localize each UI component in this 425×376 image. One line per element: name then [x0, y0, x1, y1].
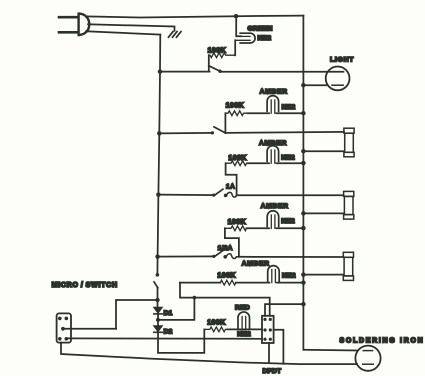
- node row1 tap on left bus: [158, 69, 163, 74]
- diode D2: [154, 326, 163, 333]
- wire left bus: [157, 35, 160, 275]
- node row4 tap on left bus: [155, 254, 160, 259]
- wire row1 from switch to light: [222, 71, 344, 73]
- node row4 indicator on right bus: [301, 226, 306, 231]
- lamp NE2 amber row4 envelope: [267, 211, 279, 227]
- switch S4 right contact blob: [223, 255, 227, 259]
- node receptacle J1 return on right bus: [301, 149, 306, 154]
- node DPDT col1 wire on right bus: [301, 302, 306, 307]
- wire row5 lamp to bus: [277, 282, 303, 284]
- node riser junction: [193, 296, 197, 300]
- svg-text:NE2: NE2: [281, 154, 295, 161]
- wire resistor R1 stub down: [208, 55, 210, 71]
- wire row5 indicator left leg: [180, 283, 270, 316]
- wire row3 fuse to receptacle J2: [237, 194, 344, 196]
- svg-text:100K: 100K: [217, 273, 236, 280]
- svg-text:DPDT: DPDT: [263, 368, 282, 375]
- wire row4 fuse to receptacle J3: [239, 256, 343, 258]
- svg-text:1A: 1A: [226, 183, 235, 190]
- svg-text:AMBER: AMBER: [261, 203, 289, 210]
- svg-text:AMBER: AMBER: [259, 140, 287, 147]
- wire receptacle J1 return: [303, 150, 344, 152]
- wire row4 indicator lamp to bus: [277, 227, 304, 229]
- svg-text:NE2: NE2: [281, 218, 295, 225]
- wire green lamp lower lead: [234, 40, 236, 55]
- soldering iron bulb: [355, 346, 380, 371]
- svg-text:100K: 100K: [226, 102, 245, 109]
- ground chassis symbol: [169, 32, 182, 38]
- lamp NE2 amber row2 electrodes: [271, 100, 275, 113]
- wire D1 to node B: [157, 314, 159, 320]
- node receptacle J2 return on right bus: [301, 211, 306, 216]
- DPDT contacts: [263, 318, 272, 341]
- receptacle J1 top cap: [344, 128, 354, 133]
- svg-text:D1: D1: [164, 310, 173, 317]
- resistor R2 100K row2: [225, 111, 247, 116]
- wire row2 from bus to switch: [159, 132, 212, 135]
- lamp LIGHT lower electrode: [332, 84, 343, 86]
- wire resistor R2 stub: [224, 113, 226, 133]
- svg-text:1/2A: 1/2A: [218, 245, 233, 252]
- wire resistor R3 jog to row3: [226, 163, 237, 195]
- lamp NE2 amber row3 electrodes: [271, 150, 275, 163]
- resistor R6 100K red branch: [204, 327, 227, 332]
- node row3 tap on left bus: [156, 192, 161, 197]
- svg-text:100K: 100K: [207, 319, 226, 326]
- lamp NE2 green electrodes: [235, 36, 250, 40]
- node row5 indicator on right bus: [301, 280, 306, 285]
- svg-text:AMBER: AMBER: [242, 261, 270, 268]
- receptacle J3 bottom cap: [343, 276, 353, 281]
- switch S3 right contact blob: [224, 194, 228, 198]
- svg-text:SOLDERING IRON: SOLDERING IRON: [340, 337, 425, 344]
- wire DPDT col1 stub to right bus: [265, 304, 303, 316]
- switch S3 left contact blob: [212, 194, 215, 197]
- wire DPDT bottom stub: [268, 343, 270, 362]
- wire green lamp upper lead: [236, 16, 241, 36]
- wire receptacle J2 return: [303, 212, 343, 214]
- wire row4 indicator to lamp: [246, 227, 269, 229]
- svg-text:AMBER: AMBER: [260, 88, 288, 95]
- diode D1: [154, 307, 163, 314]
- svg-text:NE2: NE2: [258, 35, 272, 42]
- wire right bus: [302, 16, 304, 350]
- wire D2 to bottom corner and RED branch riser: [158, 329, 204, 353]
- wire row2 switch to receptacle J1: [225, 132, 344, 133]
- svg-text:100K: 100K: [228, 155, 247, 162]
- switch S1 right contact blob: [218, 70, 221, 73]
- microswitch connector CN1 body: [57, 313, 71, 342]
- wire row1 from bus to switch: [160, 71, 210, 73]
- wire left bus below main switch: [157, 288, 159, 300]
- svg-text:D2: D2: [164, 328, 173, 335]
- resistor R3 100K row3: [226, 161, 248, 166]
- lamp NE2 amber row5 electrodes: [272, 270, 276, 283]
- wire ground pigtail: [88, 24, 175, 31]
- switch S4 left contact blob: [212, 255, 215, 258]
- receptacle J3 top cap: [343, 252, 353, 257]
- svg-text:MICRO / SWITCH: MICRO / SWITCH: [52, 282, 118, 289]
- resistor R4 100K row4: [225, 226, 247, 231]
- switch S1 blade row1: [209, 66, 220, 72]
- switch S5 main blade: [154, 282, 158, 288]
- lamp NE2 red envelope: [238, 312, 250, 328]
- microswitch contacts: [58, 317, 68, 341]
- svg-text:NE2: NE2: [282, 104, 296, 111]
- wire neutral from plug to left bus: [86, 31, 160, 34]
- node row3 indicator on right bus: [301, 161, 306, 166]
- resistor R1 100K row1: [209, 53, 235, 58]
- receptacle J2 body: [344, 196, 353, 214]
- wire DPDT right-middle to bottom wire: [274, 330, 284, 364]
- wire microswitch bottom lead to soldering iron: [61, 343, 357, 365]
- wire node B to D2: [157, 320, 159, 326]
- receptacle J1 bottom cap: [344, 152, 354, 157]
- wire row5 resistor to lamp: [236, 282, 270, 284]
- node row2 indicator on right bus: [301, 111, 306, 116]
- receptacle J2 top cap: [344, 191, 354, 196]
- soldering iron lower electrode: [363, 363, 374, 365]
- receptacle J3 body: [344, 257, 353, 276]
- switch S2 blade row2: [214, 127, 225, 133]
- switch S3 blade row3: [215, 189, 223, 195]
- wire light lower lead from bus: [303, 84, 327, 86]
- lamp NE2 amber row3 envelope: [267, 146, 279, 162]
- svg-text:100K: 100K: [208, 47, 227, 54]
- wire row3 indicator to lamp: [248, 162, 269, 164]
- wire row3 from bus to switch: [158, 194, 213, 197]
- svg-text:RED: RED: [235, 304, 250, 311]
- wire row4 from bus to switch: [158, 255, 214, 257]
- receptacle J2 bottom cap: [344, 215, 354, 220]
- fuse F2 1/2A: [226, 254, 239, 259]
- svg-text:LIGHT: LIGHT: [330, 56, 354, 63]
- wire top AC line from plug to right bus: [86, 16, 303, 18]
- lamp NE2 amber row5 envelope: [268, 266, 280, 282]
- node B junction dot: [156, 318, 160, 322]
- wire microswitch lower contact to DPDT: [67, 337, 262, 339]
- wire node A to microswitch riser: [116, 300, 158, 329]
- wire row2 indicator lamp to bus: [277, 112, 304, 114]
- switch S2 left contact blob: [211, 131, 214, 134]
- switch S5 main contact blob on left bus: [156, 273, 160, 277]
- svg-text:NE2: NE2: [282, 273, 296, 280]
- wire row5 indicator to resistor: [180, 282, 220, 284]
- svg-text:NE2: NE2: [237, 331, 251, 338]
- lamp NE2 green envelope: [240, 33, 255, 43]
- node receptacle J3 return on right bus: [301, 272, 306, 277]
- lamp NE2 red electrodes: [242, 317, 246, 330]
- switch DPDT body: [262, 316, 274, 343]
- node row2 tap on left bus: [157, 131, 162, 136]
- lamp LIGHT bulb: [326, 67, 350, 91]
- lamp NE2 amber row2 envelope: [267, 96, 279, 112]
- svg-text:100K: 100K: [228, 219, 247, 226]
- fuse F1 1A: [227, 192, 237, 197]
- soldering iron upper electrode: [363, 350, 372, 352]
- svg-text:GREEN: GREEN: [248, 25, 273, 32]
- wire red branch resistor to DPDT: [228, 328, 262, 330]
- wire left bus node A to D1: [157, 300, 159, 307]
- wire riser to microswitch middle contact: [64, 328, 116, 330]
- plug P1: [59, 14, 89, 35]
- wire row3 indicator lamp to bus: [277, 162, 304, 164]
- node light lower wire on right bus: [301, 83, 306, 88]
- node green branch junction on top wire: [234, 14, 239, 19]
- wire receptacle J3 return: [303, 274, 343, 276]
- switch S4 blade row4: [215, 251, 223, 257]
- wire node B riser to row5 leg wire: [158, 298, 194, 320]
- wire row2 indicator to lamp: [248, 112, 269, 114]
- wire right bus to soldering iron: [303, 349, 357, 352]
- wire resistor R4 jog to row4: [225, 228, 239, 256]
- receptacle J1 body: [345, 133, 354, 152]
- lamp NE2 amber row4 electrodes: [271, 215, 275, 228]
- node A junction dot: [155, 298, 159, 302]
- resistor R5 100K row5: [220, 280, 236, 285]
